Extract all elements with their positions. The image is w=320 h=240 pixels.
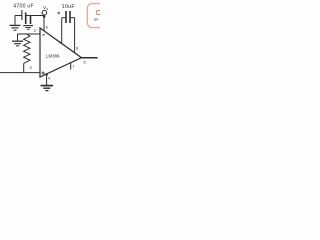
resistor R1 zigzag (volume/input resistor) [24,34,30,63]
svg-text:8: 8 [76,46,79,51]
wire pin 8 (gain cap right lead) [74,18,76,53]
ground G2 (pin 2 ground) [12,34,23,46]
svg-text:2: 2 [34,28,37,33]
wire pin 3 input line (from left edge to non-inverting input) [0,72,40,74]
watermark logo rounded box (cut off at right edge) [87,4,106,28]
wire pin 6 (Vs down to op-amp top edge) [43,16,45,31]
capacitor C1 4700uF plates [22,10,26,24]
svg-text:7: 7 [72,64,75,69]
watermark logo ring icon [96,10,100,14]
svg-text:LM386: LM386 [46,54,60,59]
node junction dot pin 4 [45,73,48,76]
svg-text:3: 3 [30,65,33,70]
svg-text:5: 5 [83,59,86,64]
wire W1 (ground to C1 left plate) [15,15,22,17]
svg-text:6: 6 [46,25,49,30]
wire pin 5 output [82,57,98,59]
wire R1 bottom to input line [23,63,25,72]
svg-text:4: 4 [48,76,51,81]
capacitor C2 plate (bypass, bold bar) [30,16,32,25]
terminal Vs circle [42,10,47,15]
wire pin 7 stub (bypass) [70,63,72,70]
op-amp U1 LM386 triangle [40,28,82,77]
op-amp inverting input minus sign [42,34,45,36]
wire pin 2 (ground to inverting input) [18,33,41,35]
wire pin 1 (gain cap left lead) [61,18,63,44]
svg-text:s: s [46,7,48,11]
node junction dot at Vs [43,15,46,18]
ground G1 (supply filter cap ground, top-left) [10,16,21,31]
ground G3 (op-amp ground) [41,86,53,91]
wire W2 (C1 to Vs node) [26,15,44,17]
ground G2a (under C2) [23,26,33,30]
capacitor C3 polarity plus [58,12,61,15]
op-amp non-inverting input plus sign [42,71,45,74]
wire pin 4 to ground [46,74,48,85]
capacitor C3 10uF gain cap [62,11,75,23]
svg-text:4700 uF: 4700 uF [13,3,34,9]
svg-text:am: am [94,18,99,22]
svg-text:10uF: 10uF [62,4,75,10]
